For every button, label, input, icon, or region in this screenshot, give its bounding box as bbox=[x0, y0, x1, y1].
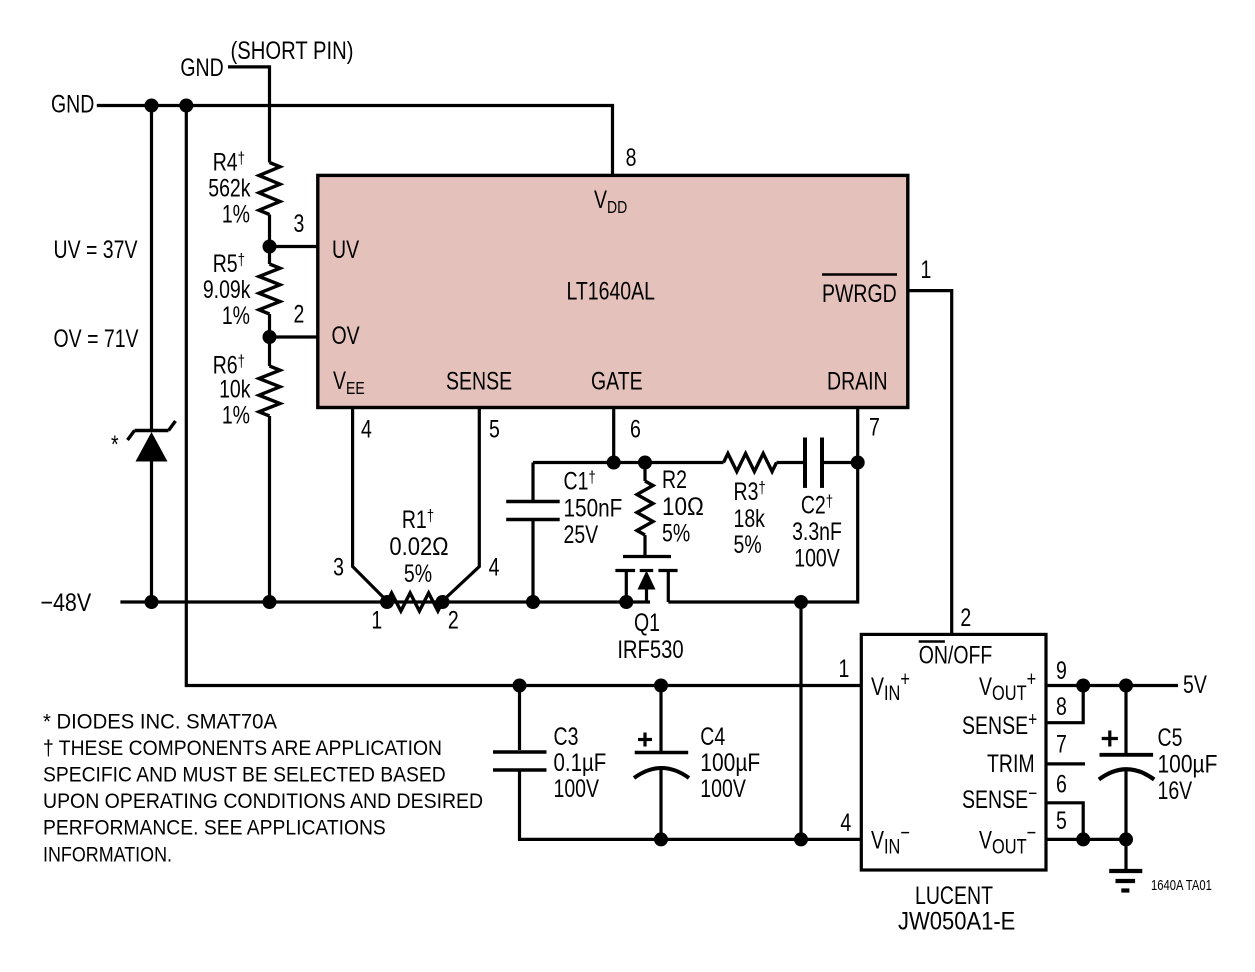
svg-text:LUCENT: LUCENT bbox=[915, 882, 993, 910]
node GATE junction bbox=[607, 456, 621, 470]
capacitor C1 bbox=[531, 463, 534, 501]
svg-text:GATE: GATE bbox=[591, 367, 643, 395]
svg-text:SENSE−: SENSE− bbox=[962, 782, 1037, 813]
svg-text:UPON OPERATING CONDITIONS AND: UPON OPERATING CONDITIONS AND DESIRED bbox=[43, 790, 483, 813]
svg-text:OV: OV bbox=[332, 322, 360, 350]
svg-text:1640A TA01: 1640A TA01 bbox=[1151, 876, 1212, 893]
wire SENSE pin 5 kelvin bbox=[443, 409, 480, 601]
svg-text:5%: 5% bbox=[404, 560, 432, 588]
svg-text:18k: 18k bbox=[734, 505, 766, 533]
resistor R1 0.02ohm bbox=[387, 593, 443, 611]
svg-text:UV: UV bbox=[332, 236, 359, 264]
wire PWRGD to ON/OFF bbox=[909, 291, 952, 634]
wire VOUT+ 5V line bbox=[1046, 684, 1178, 687]
wire UV stub bbox=[270, 245, 319, 248]
svg-text:−48V: −48V bbox=[40, 588, 91, 616]
capacitor C4 (polarized) bbox=[659, 686, 662, 752]
svg-text:3: 3 bbox=[333, 553, 344, 581]
node C5/Vout- junction bbox=[1119, 832, 1133, 846]
node zener/-48V junction bbox=[145, 595, 159, 609]
svg-text:† THESE COMPONENTS ARE APPLICA: † THESE COMPONENTS ARE APPLICATION bbox=[43, 737, 442, 760]
svg-text:100µF: 100µF bbox=[1158, 750, 1218, 778]
zener diode D1 (SMAT70A) bbox=[128, 421, 176, 440]
svg-text:TRIM: TRIM bbox=[987, 750, 1035, 778]
svg-text:LT1640AL: LT1640AL bbox=[567, 277, 656, 305]
wire gate node horizontal bbox=[533, 461, 724, 464]
svg-text:100V: 100V bbox=[700, 775, 746, 803]
svg-text:*: * bbox=[111, 431, 119, 459]
svg-text:R2: R2 bbox=[662, 466, 687, 494]
svg-text:* DIODES INC. SMAT70A: * DIODES INC. SMAT70A bbox=[43, 710, 277, 733]
svg-text:100V: 100V bbox=[554, 775, 600, 803]
IC U1 LT1640AL body bbox=[318, 175, 908, 407]
capacitor C3 bbox=[518, 686, 521, 751]
svg-text:OV = 71V: OV = 71V bbox=[54, 325, 139, 353]
svg-text:SENSE+: SENSE+ bbox=[962, 708, 1037, 739]
wire zener branch lower bbox=[150, 462, 153, 603]
node junction GND/Vin+ bbox=[179, 99, 193, 113]
wire VEE pin 4 kelvin bbox=[353, 409, 387, 601]
transistor Q1 IRF530 bbox=[615, 557, 677, 603]
resistor R2 bbox=[643, 463, 646, 482]
node C1/-48V junction bbox=[526, 595, 540, 609]
svg-text:5V: 5V bbox=[1183, 671, 1207, 699]
svg-text:IRF530: IRF530 bbox=[617, 635, 683, 664]
node UV junction (pin 3) bbox=[263, 240, 277, 254]
wire OV stub bbox=[270, 335, 319, 338]
svg-text:GND: GND bbox=[51, 90, 94, 118]
node C4/Vin- junction bbox=[654, 832, 668, 846]
svg-text:3.3nF: 3.3nF bbox=[792, 518, 842, 546]
wire drain node drop to Vin- bbox=[799, 602, 802, 839]
node OV junction bbox=[263, 330, 277, 344]
svg-text:6: 6 bbox=[630, 415, 641, 443]
svg-text:SENSE: SENSE bbox=[446, 367, 512, 395]
svg-text:3: 3 bbox=[294, 210, 305, 238]
svg-text:JW050A1-E: JW050A1-E bbox=[898, 907, 1015, 935]
svg-text:0.02Ω: 0.02Ω bbox=[389, 533, 448, 561]
resistor R6 bbox=[259, 366, 280, 416]
ground bbox=[1109, 871, 1142, 891]
svg-text:8: 8 bbox=[1056, 693, 1067, 721]
plus sign C4 bbox=[638, 738, 652, 741]
node divider/-48V junction bbox=[263, 595, 277, 609]
capacitor C2 bbox=[803, 438, 807, 488]
svg-text:0.1µF: 0.1µF bbox=[554, 748, 607, 776]
capacitor C5 (polarized) bbox=[1124, 686, 1127, 754]
svg-text:7: 7 bbox=[869, 413, 880, 441]
svg-text:10Ω: 10Ω bbox=[662, 493, 704, 521]
node drain rail junction bbox=[794, 595, 808, 609]
svg-text:PERFORMANCE. SEE APPLICATIONS: PERFORMANCE. SEE APPLICATIONS bbox=[43, 817, 386, 840]
wire TRIM stub bbox=[1046, 762, 1085, 765]
resistor R4 bbox=[259, 163, 280, 215]
svg-text:562k: 562k bbox=[208, 174, 251, 202]
svg-text:ON/OFF: ON/OFF bbox=[919, 641, 993, 669]
wire -48V rail bbox=[120, 600, 650, 603]
svg-text:1: 1 bbox=[839, 655, 850, 683]
svg-text:2: 2 bbox=[294, 300, 305, 328]
svg-text:1%: 1% bbox=[222, 200, 250, 228]
wire GND to Vin+ rail bbox=[186, 106, 861, 686]
svg-text:9: 9 bbox=[1056, 657, 1067, 685]
svg-text:5: 5 bbox=[489, 415, 500, 443]
svg-text:(SHORT PIN): (SHORT PIN) bbox=[231, 36, 354, 65]
node sense-/Vout- junction bbox=[1076, 832, 1090, 846]
svg-text:7: 7 bbox=[1056, 730, 1067, 758]
svg-text:16V: 16V bbox=[1158, 777, 1193, 805]
svg-text:9.09k: 9.09k bbox=[203, 276, 251, 304]
svg-text:1%: 1% bbox=[222, 302, 250, 330]
svg-text:1: 1 bbox=[921, 256, 932, 284]
node C3/Vin+ junction bbox=[513, 679, 527, 693]
wire SENSE+ stub bbox=[1046, 687, 1083, 723]
wire R3 to C2 bbox=[777, 461, 806, 464]
svg-text:C5: C5 bbox=[1158, 724, 1183, 752]
wire GND rail to VDD pin 8 bbox=[97, 106, 613, 176]
svg-text:10k: 10k bbox=[219, 375, 251, 403]
svg-text:4: 4 bbox=[361, 415, 372, 443]
DC/DC module U2 JW050A1-E bbox=[861, 634, 1046, 870]
resistor R5 bbox=[259, 264, 280, 314]
svg-text:1%: 1% bbox=[222, 401, 250, 429]
svg-text:C4: C4 bbox=[700, 723, 725, 751]
svg-text:4: 4 bbox=[489, 553, 500, 581]
svg-text:1: 1 bbox=[371, 606, 382, 634]
node sense+/Vout+ junction bbox=[1076, 679, 1090, 693]
svg-text:SPECIFIC AND MUST BE SELECTED: SPECIFIC AND MUST BE SELECTED BASED bbox=[43, 764, 446, 787]
wire GATE pin 6 bbox=[612, 409, 615, 463]
svg-text:UV = 37V: UV = 37V bbox=[54, 235, 138, 263]
node junction GND/zener bbox=[145, 99, 159, 113]
svg-text:100µF: 100µF bbox=[700, 748, 760, 776]
wire to ground bbox=[1124, 839, 1127, 869]
wire R2 to Q1 gate bbox=[643, 535, 646, 557]
svg-text:INFORMATION.: INFORMATION. bbox=[43, 843, 172, 866]
svg-text:5%: 5% bbox=[662, 519, 690, 547]
svg-text:2: 2 bbox=[960, 604, 971, 632]
wire short-pin GND down through divider bbox=[228, 67, 270, 163]
wire DRAIN pin 7 bbox=[668, 409, 857, 602]
node DRAIN/C2 junction bbox=[851, 456, 865, 470]
svg-text:PWRGD: PWRGD bbox=[822, 280, 897, 308]
wire SENSE- stub bbox=[1046, 803, 1083, 838]
svg-text:Q1: Q1 bbox=[634, 609, 660, 637]
wire VOUT- line bbox=[1046, 838, 1126, 841]
plus sign C5 bbox=[1102, 737, 1118, 740]
node R1 terminal 1 junction bbox=[380, 595, 394, 609]
node Q1 source junction bbox=[619, 595, 633, 609]
wire zener branch upper bbox=[150, 106, 153, 431]
node C5/5V junction bbox=[1119, 679, 1133, 693]
svg-text:6: 6 bbox=[1056, 770, 1067, 798]
node Vin- junction bbox=[794, 832, 808, 846]
node R2 top junction bbox=[638, 456, 652, 470]
svg-text:150nF: 150nF bbox=[564, 493, 623, 521]
node R1 terminal 2 junction bbox=[436, 595, 450, 609]
node C4/Vin+ junction bbox=[654, 679, 668, 693]
resistor R3 bbox=[724, 454, 777, 472]
svg-text:2: 2 bbox=[448, 606, 459, 634]
svg-text:5: 5 bbox=[1056, 806, 1067, 834]
svg-text:4: 4 bbox=[840, 809, 851, 837]
svg-text:8: 8 bbox=[626, 143, 637, 171]
svg-text:GND: GND bbox=[180, 54, 223, 82]
svg-text:C3: C3 bbox=[554, 723, 579, 751]
svg-text:100V: 100V bbox=[794, 544, 840, 572]
svg-text:DRAIN: DRAIN bbox=[827, 367, 888, 395]
svg-text:5%: 5% bbox=[734, 531, 762, 559]
svg-text:25V: 25V bbox=[564, 521, 599, 549]
